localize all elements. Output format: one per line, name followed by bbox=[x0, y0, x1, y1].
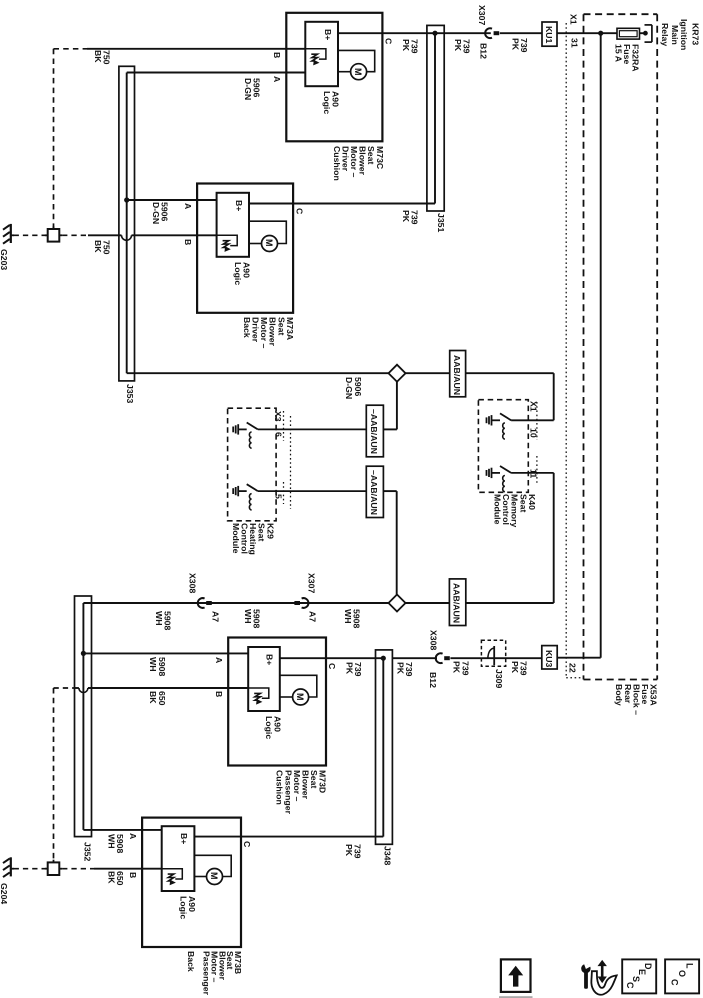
motor M of M73A bbox=[262, 236, 278, 252]
wire label 739 PK (J309-KU3) bbox=[510, 661, 527, 676]
pin 11 bbox=[529, 469, 538, 478]
label X307 (5908 line) bbox=[307, 573, 316, 593]
DESC icon letter C bbox=[626, 982, 635, 989]
pin label A of M73C bbox=[273, 76, 282, 82]
bottom grey strip bbox=[499, 996, 533, 998]
pin label B+ of M73B bbox=[180, 833, 189, 844]
wire label 739 PK (J348 to X308) bbox=[396, 662, 413, 677]
label KR73 bbox=[691, 23, 700, 45]
M73B internal B-input step wire bbox=[162, 869, 183, 879]
wire: 739 PK X307 to KU1 bbox=[500, 32, 542, 34]
DESC icon letter S bbox=[631, 976, 640, 982]
junction on J353 bus wire bbox=[124, 197, 129, 202]
wire label 739 PK (J348 bottom) bbox=[344, 844, 361, 859]
icon: DESC box bbox=[622, 959, 656, 993]
motor letter M of M73C bbox=[354, 68, 363, 76]
icon: up arrow box bbox=[501, 959, 531, 992]
wire: J353 internal bus wire bbox=[126, 73, 128, 374]
wire label 5908 WH (left) bbox=[154, 611, 171, 630]
fuse block XS3A dashed outline bbox=[584, 13, 658, 15]
M73C motor drive loop bbox=[338, 50, 375, 71]
label AAB/AUN bbox=[452, 355, 461, 395]
M73D internal B-input step wire bbox=[248, 688, 269, 698]
label AAB/AUN lower bbox=[452, 583, 461, 623]
pin 10 bbox=[529, 428, 538, 438]
connector label X1 (top) bbox=[569, 14, 578, 25]
wire label 650 BK (M73B B) bbox=[107, 871, 124, 886]
LOC icon letter C bbox=[670, 979, 679, 986]
inline connector X308 on 5908 WH line bbox=[198, 598, 205, 608]
wire: J352 bottom corner to M73B pin A bbox=[83, 829, 161, 831]
motor M of M73C bbox=[351, 64, 367, 80]
label KU3 bbox=[544, 650, 553, 667]
wire: vertical down to K40 pin 10 bbox=[553, 373, 555, 420]
wire code box KU3 bbox=[542, 646, 557, 669]
LOC icon letter L bbox=[685, 963, 694, 969]
pin label A of M73D bbox=[214, 657, 223, 663]
node: option diamond 2 bbox=[389, 595, 406, 612]
pin label A of M73B bbox=[128, 833, 137, 839]
wire code box KU1 bbox=[542, 22, 557, 46]
wire: diamond1 down to K29 branch bbox=[396, 382, 398, 430]
pin label C of M73A bbox=[295, 208, 304, 214]
wire: 750 BK solid to M73C pin B bbox=[87, 48, 305, 50]
wire: K29 lower branch to diamond 2 bbox=[383, 490, 396, 492]
connector code box -AAB/AUN (lower) bbox=[366, 466, 383, 517]
wire label 5908 WH (middle) bbox=[243, 609, 260, 628]
pin label C of M73C bbox=[384, 38, 393, 44]
wire: 5906 D-GN from J353 top corner to M73C pin A bbox=[127, 72, 306, 74]
wire: J352 internal bus wire bbox=[82, 603, 84, 830]
wire: 5906 D-GN main line from J353 bottom to K40 bbox=[127, 372, 554, 374]
icon: LOC box bbox=[665, 959, 699, 993]
blower motor module M73C: outer box bbox=[286, 13, 382, 142]
splice pack J352 housing bbox=[75, 596, 92, 837]
label A90 Logic of M73A bbox=[233, 262, 250, 285]
wire: 750 BK solid to M73A pin B with hop over J353 bus wire bbox=[88, 234, 122, 236]
splice/connector square near G203 bbox=[45, 226, 62, 241]
wire: long vertical 739 PK feed (fuse to KU3) bbox=[600, 33, 602, 658]
label F32RA Fuse 15 A bbox=[614, 44, 640, 72]
connector label X1 (K40) bbox=[529, 401, 538, 412]
label A90 Logic of M73D bbox=[264, 716, 281, 739]
wire label 650 BK (M73D B) bbox=[149, 691, 166, 706]
connector label X3 bbox=[273, 411, 282, 422]
wire: J348 internal bus wire bbox=[382, 658, 384, 836]
motor letter M of M73B bbox=[210, 872, 219, 880]
M73D A90 logic PWM driver symbol bbox=[254, 693, 260, 700]
icon: wrench and routing arrows bbox=[581, 960, 607, 989]
pin label C of M73B bbox=[243, 841, 252, 847]
module K29 dashed box bbox=[228, 408, 277, 521]
pin label B of M73D bbox=[214, 691, 223, 697]
wire: 739 PK M73C pin C to J351 bbox=[338, 32, 491, 34]
wire: KU3 right to vertical feed corner bbox=[557, 657, 601, 659]
pin label C of M73D bbox=[328, 663, 337, 669]
wire: fuse to relay contact bbox=[640, 32, 646, 34]
pin 31 bbox=[570, 38, 579, 48]
wire: J351 internal bus wire bbox=[434, 33, 436, 203]
connector code box AAB/AUN (top) bbox=[450, 351, 466, 397]
label J353 bbox=[125, 384, 134, 403]
wire: K40 pin11 down to 5908 line bbox=[553, 473, 555, 603]
DESC icon letter E bbox=[637, 969, 646, 975]
label Main bbox=[671, 25, 680, 45]
wire label 750 BK (lower) bbox=[93, 240, 110, 255]
splice/connector square near G204 bbox=[45, 860, 62, 875]
splice pack J351 housing bbox=[427, 25, 444, 211]
pin A7 (X307) bbox=[308, 611, 317, 622]
label J348 bbox=[383, 846, 392, 865]
wire: G203 dashed riser vertical bbox=[53, 49, 55, 229]
motor letter M of M73D bbox=[296, 693, 305, 701]
label KU1 bbox=[544, 26, 553, 43]
wire label 739 PK (X307 to KU1) bbox=[511, 38, 528, 53]
pin label B+ of M73A bbox=[234, 200, 243, 211]
connector X1 dotted boundary (K40) bbox=[536, 402, 538, 440]
M73B A90 logic PWM driver symbol bbox=[168, 874, 174, 881]
wire: 5906 D-GN tap to M73A pin A bbox=[127, 199, 217, 201]
wire: KU1 to fuse F32RA bbox=[557, 32, 617, 34]
wire: 739 PK J348 to X308 bbox=[392, 657, 437, 659]
splice pack J353 housing bbox=[119, 66, 135, 381]
ground G204 bbox=[3, 857, 14, 877]
label A90 Logic of M73B bbox=[179, 896, 196, 919]
junction on J348 bus wire bbox=[381, 656, 386, 661]
wire label 5906 D-GN (at diamond) bbox=[345, 377, 362, 399]
wire label 5908 WH (right) bbox=[343, 609, 360, 628]
inline connector X307 / splice B12 (top 739 PK line) bbox=[485, 28, 492, 38]
wire: 739 PK M73D pin C to J348 bbox=[280, 657, 384, 659]
switch contact X1-11 inside K40 bbox=[487, 466, 554, 492]
label B12 (lower) bbox=[428, 672, 437, 688]
label K40 Seat Memory Control Module bbox=[493, 494, 536, 527]
M73A A90 logic inner box bbox=[217, 193, 249, 257]
wire label 5906 D-GN (M73A A) bbox=[151, 202, 168, 224]
junction on J352 bus wire bbox=[81, 651, 86, 656]
relay contact KR73 bbox=[643, 31, 648, 36]
label X307 (top) bbox=[477, 5, 486, 25]
splice pack J348 housing bbox=[376, 650, 393, 844]
label J351 bbox=[436, 213, 445, 232]
motor M of M73B bbox=[207, 869, 223, 885]
blower motor module M73A: outer box bbox=[197, 184, 293, 313]
wire: dashed from square toward M73B bbox=[62, 868, 94, 870]
DESC icon letter D bbox=[643, 963, 652, 970]
wire label 5908 WH (M73D A) bbox=[149, 657, 166, 676]
ground G203 bbox=[3, 224, 14, 244]
label J309 bbox=[495, 669, 504, 688]
M73A motor drive loop bbox=[249, 221, 286, 243]
M73B motor drive loop bbox=[194, 855, 231, 876]
pin label B of M73A bbox=[183, 239, 192, 245]
junction on J351 bus wire bbox=[432, 31, 437, 36]
pin label A of M73A bbox=[183, 203, 192, 209]
M73A internal B-input step wire bbox=[217, 235, 238, 245]
label -AAB/AUN lower bbox=[370, 470, 379, 515]
wire label 5908 WH (M73B A) bbox=[107, 834, 124, 853]
inline connector X307 on 5908 WH line (mirrored) bbox=[302, 598, 309, 608]
M73A A90 logic PWM driver symbol bbox=[223, 241, 229, 248]
wire: 650 BK dashed from riser corner bbox=[54, 687, 75, 689]
wire: 739 PK M73B pin C to J348 bottom bbox=[194, 836, 383, 838]
motor M of M73D bbox=[293, 689, 309, 705]
label X53A Fuse Block - Rear Body bbox=[615, 684, 658, 715]
pin 22 bbox=[568, 663, 577, 673]
label G204 bbox=[0, 883, 8, 904]
pin 6 bbox=[274, 432, 283, 437]
wire label 739 PK (M73C C) bbox=[401, 39, 418, 54]
label -AAB/AUN upper bbox=[370, 409, 379, 454]
wire label 739 PK (M73D C) bbox=[345, 662, 362, 677]
M73D A90 logic inner box bbox=[248, 647, 280, 711]
label M73C bbox=[332, 146, 384, 181]
J309 inline element bbox=[481, 657, 541, 659]
label M73B bbox=[186, 951, 241, 995]
wire: 739 PK M73A pin C to J351 bottom corner bbox=[249, 203, 435, 205]
inline connector X308 / splice B12 (lower 739 PK line) bbox=[436, 653, 443, 663]
blower motor module M73B: outer box bbox=[142, 818, 241, 947]
pin label B+ of M73C bbox=[323, 29, 332, 40]
connector code box -AAB/AUN (upper) bbox=[366, 405, 383, 457]
label X308 (lower) bbox=[429, 630, 438, 650]
wire: 650 BK solid to M73D pin B with hop over J352 bus wire bbox=[75, 687, 79, 689]
LOC icon letter O bbox=[677, 970, 686, 977]
wire label 739 PK (M73A C) bbox=[401, 210, 418, 225]
label A90 Logic of M73C bbox=[322, 91, 339, 114]
module K40 dashed box bbox=[478, 400, 528, 493]
label J352 bbox=[83, 842, 92, 861]
wire: 750 BK from G203 riser corner to M73C pin B (dashed harness part) bbox=[54, 48, 88, 50]
wire: dashed G204 to splice square bbox=[14, 868, 48, 870]
label M73A bbox=[242, 317, 294, 348]
wire label 5906 D-GN (M73C A) bbox=[243, 78, 260, 100]
M73C A90 logic PWM driver symbol bbox=[311, 54, 317, 61]
wire label 739 PK (X308-J309) bbox=[452, 661, 469, 676]
pin 5 bbox=[274, 494, 283, 499]
wire: 5908 WH main line J352 to K40 bbox=[83, 602, 553, 604]
label Relay bbox=[660, 23, 669, 46]
node: option diamond 1 bbox=[389, 365, 406, 382]
motor letter M of M73A bbox=[265, 239, 274, 247]
jumper J309 dashed box bbox=[481, 640, 505, 666]
wire: G204 dashed riser vertical bbox=[53, 688, 55, 862]
label G203 bbox=[0, 249, 8, 270]
connector X1 dotted boundary line (fuse block) bbox=[565, 23, 567, 678]
blower motor module M73D: outer box bbox=[228, 638, 326, 766]
connector code box AAB/AUN (lower) bbox=[449, 579, 465, 626]
switch contact X3-6 inside K29 bbox=[233, 423, 366, 449]
M73C A90 logic inner box bbox=[305, 22, 338, 86]
pin A7 (X308) bbox=[211, 611, 220, 622]
junction to vertical feed bbox=[598, 31, 603, 36]
M73C internal B-input step wire bbox=[305, 49, 326, 59]
M73B A90 logic inner box bbox=[162, 826, 195, 891]
connector X3 dotted boundary bbox=[283, 411, 285, 441]
wire: 650 BK solid to M73B pin B bbox=[94, 868, 162, 870]
wire label 750 BK (top) bbox=[93, 50, 110, 65]
pin label B of M73B bbox=[128, 872, 137, 878]
label Ignition bbox=[680, 19, 689, 50]
switch contact X3-5 inside K29 bbox=[233, 484, 366, 510]
pin label B+ of M73D bbox=[265, 654, 274, 665]
wire: dashed G203 to splice square bbox=[14, 234, 48, 236]
wire: X308 to J309 bbox=[450, 657, 481, 659]
label B12 (top) bbox=[479, 43, 488, 59]
fuse F32RA 15 A bbox=[617, 28, 640, 39]
switch contact X1-10 inside K40 bbox=[487, 413, 554, 439]
pin label B of M73C bbox=[273, 52, 282, 58]
wire label 739 PK (J351 to X307) bbox=[454, 39, 471, 54]
label X308 (5908 line) bbox=[188, 573, 197, 593]
label K29 Seat Heating Control Module bbox=[231, 523, 274, 555]
wire: dashed from square toward J353 bbox=[62, 234, 88, 236]
label M73D bbox=[275, 770, 327, 814]
wire: 5908 WH tap to M73D pin A bbox=[83, 652, 248, 654]
M73D motor drive loop bbox=[280, 675, 317, 697]
